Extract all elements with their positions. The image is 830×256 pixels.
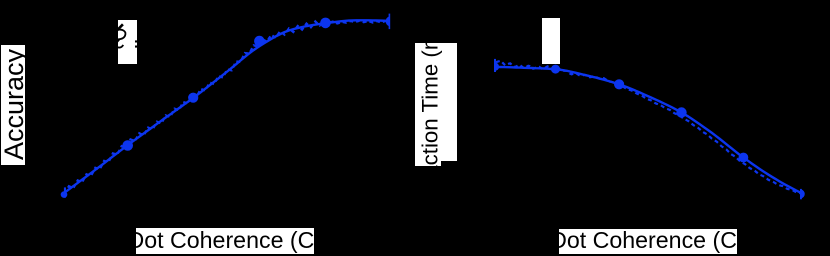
node left-marker-2: [188, 93, 198, 103]
node xlabel-left-text "Dot Coherence (Coh %)": [128, 229, 375, 252]
node right-marker-2: [614, 79, 624, 89]
node right-start-errorbar: [495, 63, 499, 71]
node ylabel-right-text "Reaction Time (ms)": [420, 13, 442, 206]
node right-marker-1: [551, 65, 560, 74]
node ylabel-left-box: [1, 45, 25, 165]
node annotation-box-left: [118, 20, 137, 64]
node left-start-errorbar: [61, 191, 68, 198]
wire left-solid-curve: [65, 20, 390, 192]
node left-marker-1: [122, 140, 133, 151]
node ylabel-right-box: [416, 43, 457, 161]
node ylabel-right-box-tall: [415, 43, 441, 167]
wire left-dashed-curve: [65, 20, 390, 194]
node xlabel-left-box: [136, 228, 314, 254]
node right-marker-4: [739, 153, 749, 163]
node right-marker-3: [676, 107, 686, 117]
node left-marker-4: [320, 18, 331, 29]
node xlabel-right-box: [559, 229, 737, 254]
node right-end-errorbar: [801, 190, 805, 199]
wire right-dashed-curve: [496, 61, 803, 194]
node annotation-glyph-fragments: [117, 24, 137, 47]
wire right-solid-curve: [496, 67, 803, 194]
node xlabel-right-text "Dot Coherence (Coh %)": [550, 229, 797, 252]
node ylabel-left-text "Accuracy": [1, 49, 28, 160]
node left-end-errorbar: [386, 16, 390, 26]
node left-marker-3: [254, 36, 265, 47]
node annotation-box-right: [542, 18, 560, 64]
